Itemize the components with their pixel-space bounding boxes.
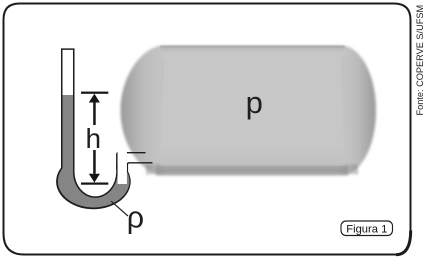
svg-text:Figura 1: Figura 1 [346, 223, 387, 235]
svg-text:p: p [246, 85, 263, 120]
svg-text:ρ: ρ [127, 200, 144, 234]
svg-text:Fonte: COPERVE S/UFSM: Fonte: COPERVE S/UFSM [415, 5, 425, 116]
svg-text:h: h [86, 123, 102, 154]
